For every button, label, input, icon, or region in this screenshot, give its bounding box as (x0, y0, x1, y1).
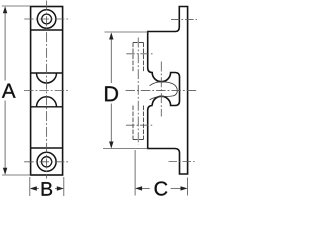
bottom hole counterbore (37, 152, 56, 171)
vertical centerline of bar (46, 1, 48, 179)
dim C line right segment (171, 187, 187, 189)
lower slot horizontal centerline (126, 124, 153, 126)
dim B right extension line (63, 177, 65, 196)
bottom square upper edge (31, 147, 63, 149)
label C (155, 181, 168, 195)
dim A top extension line (2, 5, 31, 7)
dim C right arrow (181, 186, 188, 190)
label A (2, 84, 16, 98)
dim B line left segment (31, 188, 39, 190)
dim B left arrow (30, 186, 37, 190)
dim D up arrow (109, 33, 113, 40)
mid horizontal centerline right view (126, 89, 199, 91)
dim D line lower segment (110, 104, 112, 148)
dim D bottom extension line (103, 148, 148, 150)
hidden slot lower cap dashed (133, 139, 144, 141)
upper lance arc (37, 73, 57, 83)
top hole counterbore (37, 10, 56, 29)
hidden slot upper right dashed (143, 43, 145, 73)
label B (42, 182, 52, 195)
dim A bottom extension line (2, 174, 31, 176)
upper lance line (31, 72, 63, 74)
mid horizontal centerline (24, 90, 70, 92)
upper slot horizontal centerline (126, 53, 153, 55)
dim C left arrow (135, 186, 142, 190)
dim D line upper segment (110, 34, 112, 84)
hidden slot upper cap dashed (133, 42, 144, 44)
dim B right arrow (57, 186, 64, 190)
bottom hole horizontal centerline (24, 161, 69, 163)
hidden slot lower right dashed (143, 106, 145, 140)
bracket outline (148, 7, 188, 175)
lance vertical centerline (160, 62, 162, 117)
dim C right extension line (187, 178, 189, 196)
dim A down arrow (3, 168, 7, 175)
hook formed bulge thin curve (150, 82, 178, 100)
bar outline (31, 7, 63, 176)
label D (105, 86, 118, 101)
dim B line right segment (55, 188, 63, 190)
top hole centerline right view (171, 18, 197, 20)
dim D down arrow (109, 142, 113, 149)
dim A line lower segment (4, 101, 6, 174)
dim D top extension line (105, 31, 149, 33)
top hole horizontal centerline (24, 18, 69, 20)
dim C line left segment (136, 187, 149, 189)
lower lance line (31, 106, 63, 108)
top hole bore (42, 14, 52, 24)
hidden slot lower left dashed (132, 106, 134, 140)
top square lower edge (31, 29, 63, 31)
bottom hole bore (42, 157, 52, 167)
bottom hole centerline right view (169, 161, 197, 163)
hidden slot upper left dashed (132, 43, 134, 73)
hidden slot vertical centerline (137, 38, 139, 145)
dim A up arrow (3, 6, 7, 13)
lower lance arc (37, 97, 57, 107)
dim B left extension line (29, 177, 31, 196)
dim A line upper segment (4, 8, 6, 81)
dim C left extension line (134, 150, 136, 196)
